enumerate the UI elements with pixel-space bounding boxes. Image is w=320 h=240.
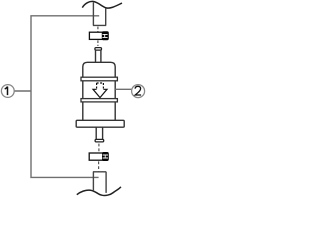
fitting (bottom union) bbox=[89, 153, 103, 160]
wire dashed centerline below bottom fitting bbox=[98, 161, 100, 171]
wire leader to circle 2 bbox=[115, 88, 131, 90]
wire leader to circle 1 bbox=[14, 90, 31, 92]
wire bracket for callout 1 bbox=[31, 16, 99, 178]
fitting (top union) bbox=[89, 32, 103, 39]
body sides bbox=[83, 81, 115, 121]
wire dashed centerline below top fitting bbox=[97, 40, 99, 46]
stub cap bbox=[95, 139, 104, 142]
flange bbox=[76, 120, 124, 127]
neck cap bbox=[95, 48, 102, 51]
nut (bottom, hatched) bbox=[102, 152, 109, 161]
wire dashed centerline above top fitting bbox=[97, 27, 99, 32]
wire dashed centerline below stub bbox=[98, 144, 100, 153]
stub pipe bbox=[96, 127, 102, 139]
band lower bbox=[81, 99, 117, 102]
node 1 callout circle bbox=[1, 85, 14, 98]
nut (top, hatched) bbox=[102, 31, 109, 40]
dome shoulder bbox=[83, 62, 115, 77]
hose bottom (cut pipe) bbox=[77, 172, 121, 196]
neck bbox=[96, 50, 101, 62]
hose top (cut pipe) bbox=[82, 1, 122, 25]
band upper bbox=[81, 77, 117, 81]
flow arrow (dashed stem) bbox=[93, 83, 107, 98]
node 2 callout circle bbox=[132, 85, 145, 98]
filter drier bbox=[76, 48, 124, 142]
